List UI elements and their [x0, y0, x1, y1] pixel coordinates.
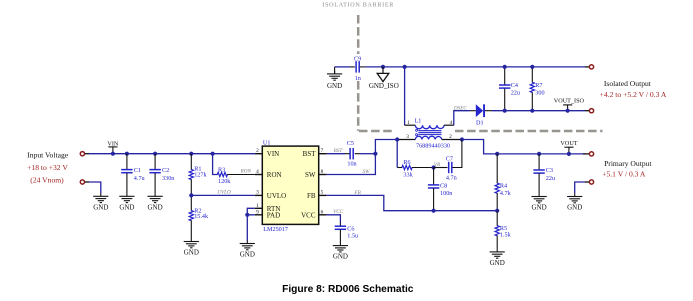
wire C5 to SW net	[360, 152, 378, 156]
svg-text:22u: 22u	[546, 175, 555, 182]
pin 7 BST of U1	[303, 148, 327, 158]
wire transformer pin 2 to primary rail	[462, 140, 585, 154]
pin 8 SW of U1	[305, 169, 326, 179]
wire transformer pin4 up to D1 anode	[454, 111, 470, 126]
ground input return	[93, 193, 108, 211]
node VR junction	[432, 165, 436, 169]
svg-text:VIN: VIN	[267, 150, 279, 158]
svg-text:300: 300	[535, 90, 544, 97]
pin 4 RON of U1	[255, 169, 282, 179]
svg-text:C7: C7	[446, 155, 453, 162]
net label DSEC	[453, 105, 468, 111]
svg-text:R6: R6	[403, 159, 410, 166]
isolation barrier label	[322, 3, 394, 9]
svg-text:ISOLATION BARRIER: ISOLATION BARRIER	[322, 3, 394, 9]
capacitor C4	[499, 67, 520, 111]
resistor R3	[211, 152, 255, 186]
svg-text:BST: BST	[303, 150, 317, 158]
diode D1	[470, 104, 492, 126]
resistor R7	[530, 67, 544, 111]
svg-text:VOUT: VOUT	[560, 140, 577, 147]
pin 3 of L1	[406, 134, 409, 140]
svg-text:4: 4	[256, 169, 259, 175]
svg-text:BST: BST	[334, 148, 344, 154]
node transformer pin 3 junction	[395, 137, 399, 141]
svg-text:GND_ISO: GND_ISO	[369, 82, 399, 90]
svg-text:GND: GND	[532, 204, 547, 212]
wire D1 cathode rail to VOUT_ISO terminal	[492, 110, 585, 112]
resistor R2	[189, 195, 209, 238]
svg-text:10n: 10n	[347, 160, 356, 167]
terminal primary return	[585, 180, 594, 184]
svg-text:FB: FB	[353, 190, 361, 196]
svg-text:RON: RON	[267, 171, 282, 179]
svg-text:GND: GND	[567, 204, 582, 212]
svg-text:VCC: VCC	[301, 211, 316, 219]
capacitor C5	[345, 140, 360, 167]
terminal isolated output +	[585, 65, 594, 69]
node C4 top junction	[503, 65, 507, 69]
svg-text:GND: GND	[333, 253, 348, 261]
wire FB from U1 to feedback rail	[326, 195, 497, 210]
svg-text:Figure 8: RD006 Schematic: Figure 8: RD006 Schematic	[282, 284, 414, 295]
svg-text:6: 6	[321, 209, 324, 215]
svg-text:76889440330: 76889440330	[416, 143, 450, 150]
capacitor C1	[121, 152, 144, 194]
svg-text:1: 1	[256, 203, 259, 209]
node R7 bottom junction	[530, 109, 534, 113]
svg-text:R4: R4	[500, 182, 507, 189]
op-amp U1 LM25017 body	[262, 140, 318, 233]
wire SW vertical to transformer pin 3	[326, 140, 397, 175]
ground RTN	[240, 240, 255, 258]
node C4 bottom junction	[503, 109, 507, 113]
node R7 top junction	[530, 65, 534, 69]
svg-text:GND: GND	[490, 259, 505, 267]
net label VOUT flag	[560, 140, 577, 156]
svg-text:C6: C6	[347, 226, 354, 233]
svg-text:GND: GND	[240, 251, 255, 259]
pin 5 FB of U1	[307, 190, 326, 200]
svg-text:C4: C4	[511, 82, 518, 89]
net label UVLO	[217, 190, 231, 196]
net label VR	[434, 162, 441, 168]
ground C3	[532, 193, 547, 211]
svg-text:7: 7	[321, 148, 324, 154]
capacitor C2	[149, 152, 174, 194]
terminal VOUT_ISO	[585, 109, 594, 113]
wire iso rail down to transformer pin 1	[404, 67, 406, 125]
svg-text:2: 2	[256, 148, 259, 154]
net label RON	[240, 169, 252, 175]
svg-text:VOUT_ISO: VOUT_ISO	[554, 98, 585, 105]
svg-text:C8: C8	[440, 183, 447, 190]
capacitor C8	[428, 168, 452, 211]
svg-text:GND: GND	[327, 82, 342, 90]
pin 4 of L1	[450, 120, 453, 126]
text Input Voltage	[27, 151, 68, 160]
svg-text:SW: SW	[363, 169, 371, 175]
svg-text:R3: R3	[218, 167, 225, 174]
svg-text:+4.2 to +5.2 V / 0.3 A: +4.2 to +5.2 V / 0.3 A	[600, 90, 667, 99]
net label SW	[363, 169, 371, 175]
svg-text:VIN: VIN	[107, 140, 119, 147]
ground R2	[184, 238, 199, 256]
text Primary Output	[604, 159, 652, 168]
capacitor C7	[434, 140, 462, 182]
pin 1 RTN of U1	[255, 203, 281, 213]
wire input return to ground	[89, 182, 101, 193]
svg-text:15.4k: 15.4k	[194, 213, 209, 220]
svg-text:R7: R7	[535, 82, 542, 89]
capacitor C6	[335, 223, 358, 243]
node transformer pin 2 junction	[460, 137, 464, 141]
svg-text:C9: C9	[354, 56, 361, 63]
svg-text:GND: GND	[148, 203, 163, 211]
wire RTN PAD to ground	[245, 208, 255, 240]
svg-text:1.5u: 1.5u	[347, 233, 358, 240]
wire iso top rail GND to terminal	[335, 66, 585, 68]
resistor R6	[397, 140, 433, 179]
text (24 Vnom)	[30, 175, 64, 184]
svg-text:UVLO: UVLO	[217, 190, 231, 196]
ground GND iso left	[327, 67, 342, 90]
svg-text:FB: FB	[307, 192, 316, 200]
pin 2 VIN of U1	[255, 148, 279, 158]
svg-text:D1: D1	[476, 119, 484, 126]
ground C1	[119, 193, 134, 211]
node C8 bottom junction	[432, 209, 436, 213]
svg-text:5: 5	[321, 190, 324, 196]
svg-text:1.5k: 1.5k	[500, 232, 512, 239]
svg-text:GND: GND	[93, 203, 108, 211]
terminal input +	[80, 152, 89, 156]
svg-text:100n: 100n	[440, 190, 452, 197]
net label BST	[334, 148, 344, 154]
pin 3 UVLO of U1	[255, 190, 286, 200]
ground R5	[490, 249, 505, 267]
pin 1 of L1	[407, 120, 410, 126]
svg-text:+18 to +32 V: +18 to +32 V	[27, 163, 68, 172]
wire UVLO rail	[189, 193, 255, 197]
ground C6	[333, 242, 348, 260]
svg-text:PAD: PAD	[267, 211, 280, 219]
wire BST to C5	[326, 153, 345, 155]
svg-text:Input Voltage: Input Voltage	[27, 151, 68, 160]
wire VIN rail	[89, 153, 255, 155]
svg-text:LM25017: LM25017	[263, 226, 288, 233]
svg-text:33k: 33k	[403, 172, 413, 179]
svg-text:2: 2	[449, 134, 452, 140]
svg-text:SW: SW	[305, 171, 316, 179]
pin 2 of L1	[449, 134, 452, 140]
svg-text:1: 1	[407, 120, 410, 126]
pin 9 PAD of U1	[255, 209, 280, 219]
svg-text:4: 4	[450, 120, 453, 126]
net label VOUT_ISO flag	[554, 98, 585, 113]
pin 6 VCC of U1	[301, 209, 326, 219]
svg-text:127k: 127k	[194, 171, 207, 178]
svg-text:VCC: VCC	[333, 209, 344, 215]
svg-text:C1: C1	[134, 167, 141, 174]
wire VCC to C6	[326, 215, 340, 223]
svg-text:3: 3	[406, 134, 409, 140]
text +5.1 V / 0.3 A	[602, 170, 646, 179]
svg-text:4.7k: 4.7k	[500, 190, 512, 197]
isolation barrier dashed line	[358, 15, 602, 131]
capacitor C3	[533, 152, 555, 194]
svg-text:GND: GND	[119, 203, 134, 211]
svg-text:22u: 22u	[511, 89, 520, 96]
terminal VOUT	[583, 152, 594, 156]
svg-text:UVLO: UVLO	[267, 192, 286, 200]
capacitor C9	[350, 56, 365, 83]
terminal input return	[80, 180, 89, 184]
net label VIN flag	[107, 140, 119, 155]
node R4 R5 FB junction	[495, 209, 499, 213]
node secondary-top junction on iso rail	[403, 65, 407, 69]
svg-text:(24 Vnom): (24 Vnom)	[30, 175, 64, 184]
svg-text:Isolated Output: Isolated Output	[604, 79, 652, 88]
transformer L1	[397, 117, 462, 149]
svg-text:9: 9	[256, 209, 259, 215]
svg-text:L1: L1	[415, 117, 422, 124]
svg-text:RON: RON	[240, 169, 252, 175]
text Isolated Output	[604, 79, 652, 88]
svg-text:4.7u: 4.7u	[134, 175, 145, 182]
resistor R1	[189, 152, 207, 196]
net label VCC	[333, 209, 344, 215]
resistor R4	[495, 152, 512, 211]
svg-text:4.7n: 4.7n	[446, 175, 457, 182]
svg-text:Primary Output: Primary Output	[604, 159, 652, 168]
svg-text:U1: U1	[263, 140, 271, 147]
ground GND_ISO	[369, 65, 399, 90]
text +18 to +32 V	[27, 163, 68, 172]
net label FB	[353, 190, 361, 196]
svg-text:C3: C3	[546, 167, 553, 174]
svg-text:+5.1 V / 0.3 A: +5.1 V / 0.3 A	[602, 170, 646, 179]
resistor R5	[495, 211, 512, 249]
svg-text:120k: 120k	[218, 178, 231, 185]
wire primary return to ground	[575, 182, 585, 193]
text +4.2 to +5.2 V / 0.3 A	[600, 90, 667, 99]
svg-text:8: 8	[321, 169, 324, 175]
ground C2	[148, 193, 163, 211]
ground primary return	[567, 193, 582, 211]
svg-text:GND: GND	[184, 249, 199, 257]
svg-text:3: 3	[256, 190, 259, 196]
svg-text:C2: C2	[162, 167, 169, 174]
svg-text:1n: 1n	[355, 75, 361, 82]
svg-text:330n: 330n	[162, 175, 174, 182]
svg-text:C5: C5	[347, 140, 354, 147]
